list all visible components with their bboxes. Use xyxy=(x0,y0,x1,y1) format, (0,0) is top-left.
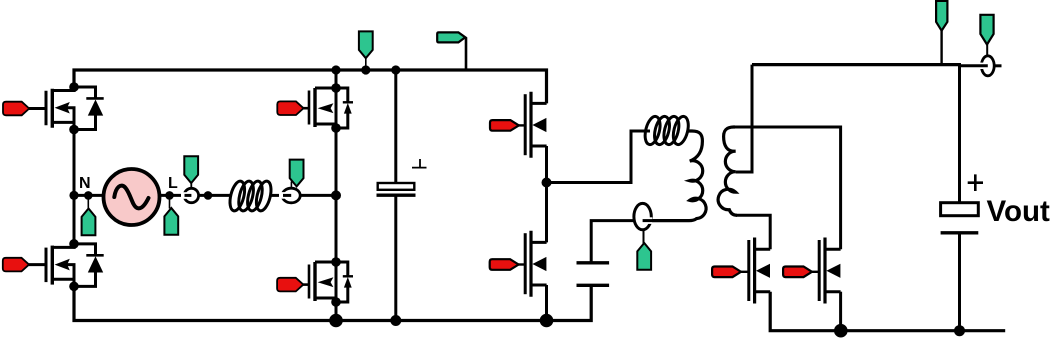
current flag above second ammeter (stem) xyxy=(290,182,292,190)
capacitor Cr (resonant) xyxy=(577,263,610,286)
transformer secondary winding with center tap xyxy=(718,127,737,215)
gate probe of Q3 xyxy=(303,107,310,110)
wire: ammeter to bridge midpoint xyxy=(300,194,336,197)
gate probe of Q6 xyxy=(518,263,525,265)
wire: N terminal to AC source xyxy=(74,194,104,197)
current flag above AC ammeter xyxy=(184,156,198,183)
wire: tank ammeter to resonant capacitor xyxy=(591,221,634,263)
wire: inductor to second ammeter xyxy=(271,194,284,197)
node N voltage-flag junction xyxy=(84,191,93,200)
wire: Q4 source to bottom rail xyxy=(335,302,338,321)
transistor Q8 (sync rect 2) xyxy=(819,238,840,304)
inductor L1 (PFC boost inductor) xyxy=(227,180,273,213)
wire: output rail down to output capacitor xyxy=(958,65,961,203)
transistor Q7 (sync rect 1) xyxy=(749,238,770,304)
svg-text:L: L xyxy=(168,175,178,192)
node after ammeter xyxy=(204,191,213,200)
current flag below tank ammeter xyxy=(637,243,651,270)
capacitor C1 (DC link, electrolytic) xyxy=(377,183,416,195)
AC source V1 xyxy=(104,169,160,225)
wire from ammeter to inductor xyxy=(199,194,231,197)
node: right leg top on rail xyxy=(331,65,340,74)
wire: secondary top lead to SR2 drain xyxy=(733,127,841,249)
polarity + of output capacitor xyxy=(968,174,983,191)
current flag above output ammeter (stem) xyxy=(986,45,988,57)
voltage flag on output rail (stem) xyxy=(940,31,942,65)
transistor Q6 (LLC low side) xyxy=(525,231,546,297)
output current probe (ammeter ring) xyxy=(981,56,994,76)
svg-text:N: N xyxy=(79,175,91,192)
polarity mark of C1 xyxy=(412,159,427,168)
node: LLC switch node xyxy=(542,178,552,188)
gate probe of Q7 xyxy=(741,271,749,273)
wire: secondary bottom rail xyxy=(770,292,1005,331)
wire: AC live terminal xyxy=(160,194,185,197)
voltage flag at N xyxy=(82,209,96,236)
inductor Lr (resonant) xyxy=(643,115,691,146)
wire: DC-link capacitor to bottom rail xyxy=(394,195,397,320)
sine wave inside AC source xyxy=(114,186,148,209)
node: right leg midpoint xyxy=(331,190,341,200)
wire: output capacitor to bottom rail xyxy=(958,233,961,331)
DC-bus voltage flag xyxy=(359,31,373,58)
wire: secondary top output rail xyxy=(752,63,961,66)
wire: right leg midpoint xyxy=(335,128,338,262)
wire: rail down to DC-link capacitor xyxy=(394,70,397,183)
transistor Q2 (PFC fast leg, low side) xyxy=(46,239,104,291)
wire: LLC leg midpoint xyxy=(545,146,548,242)
node: Q8 on secondary bottom rail xyxy=(834,324,848,338)
wire: switch node to resonant inductor xyxy=(547,131,651,183)
gate probe of Q1 xyxy=(29,107,46,110)
wire: top DC rail xyxy=(74,70,547,103)
node L voltage-flag junction xyxy=(165,191,174,200)
transistor Q5 (LLC high side) xyxy=(525,92,546,158)
node: DC-link capacitor junction on rail xyxy=(391,65,400,74)
gate probe of Q4 xyxy=(303,283,310,286)
current flag above output ammeter xyxy=(980,15,993,45)
node: output capacitor on bottom rail xyxy=(954,325,965,336)
wire: left leg midpoint xyxy=(73,130,76,245)
DC-bus voltage flag (stem) xyxy=(365,58,367,70)
voltage flag on output rail xyxy=(936,1,947,31)
node: DC-link capacitor on bottom rail xyxy=(390,315,401,326)
wire: Q6 source to bottom rail xyxy=(545,285,548,321)
node: Q4 on bottom rail xyxy=(329,314,343,328)
voltage flag at L (stem) xyxy=(169,195,171,208)
current flag above second ammeter xyxy=(290,160,304,187)
svg-text:Vout: Vout xyxy=(987,195,1051,228)
current flag below tank ammeter (stem) xyxy=(643,230,645,244)
current probe on AC line (ammeter ring) xyxy=(184,188,198,202)
transistor Q3 (PFC slow leg, high side) xyxy=(309,83,353,133)
voltage flag at L xyxy=(164,208,178,235)
wire: left leg bottom + bottom DC rail up to resonant capacitor xyxy=(74,286,591,321)
net label tag on DC bus (stem) xyxy=(465,37,468,70)
net label tag on DC bus xyxy=(437,32,465,42)
transistor Q1 (PFC fast leg, high side) xyxy=(46,82,104,134)
node: Q6 on bottom rail xyxy=(540,314,554,328)
current flag above AC ammeter (stem) xyxy=(190,182,192,188)
voltage flag at N (stem) xyxy=(87,195,89,209)
wire: center tap to output rail xyxy=(736,65,752,172)
wire: secondary bottom lead to SR1 drain xyxy=(736,215,770,249)
transformer primary winding xyxy=(652,131,706,221)
transistor Q4 (PFC slow leg, low side) xyxy=(309,257,353,307)
node: AC neutral junction on left leg xyxy=(69,191,78,200)
wire: Q8 source to bottom rail xyxy=(839,292,842,331)
capacitor Cout (output, electrolytic) xyxy=(941,203,979,233)
gate probe of Q8 xyxy=(812,271,820,273)
gate probe of Q2 xyxy=(29,263,46,266)
wire: output stub after ammeter xyxy=(994,64,1001,67)
current probe after inductor (ammeter ring) xyxy=(282,188,300,203)
gate probe of Q5 xyxy=(518,124,525,126)
node: DC-bus voltage flag junction xyxy=(361,65,370,74)
wire: rail to Q3 drain xyxy=(335,70,338,88)
current probe in resonant tank (ammeter ring) xyxy=(634,203,651,229)
